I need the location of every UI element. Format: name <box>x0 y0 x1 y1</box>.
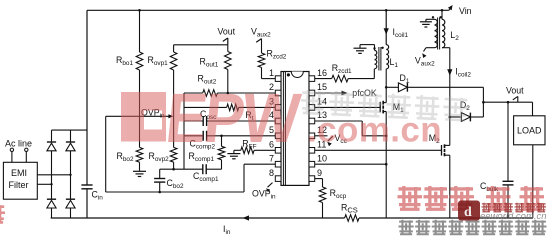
svg-text:LOAD: LOAD <box>517 126 542 136</box>
svg-text:10: 10 <box>317 153 327 163</box>
pin 12 square <box>309 133 315 139</box>
pin 1 square <box>275 76 281 82</box>
wire M2 source to rail <box>449 155 451 218</box>
node Vout flag <box>223 38 228 41</box>
capacitor Ccomp1 <box>202 164 204 174</box>
svg-text:eeworld.com.cn: eeworld.com.cn <box>480 211 547 222</box>
svg-text:Filter: Filter <box>9 180 29 190</box>
pin 3 square <box>275 105 281 111</box>
inductor L1 feed wire with Icoil1 arrow <box>385 10 387 44</box>
watermark eeworld small text <box>482 203 547 212</box>
svg-text:1: 1 <box>269 68 274 78</box>
wire pin 10 to source column <box>315 163 387 165</box>
pin 16 square <box>309 76 315 82</box>
capacitor Cin <box>81 184 92 186</box>
diode bridge lower-right <box>66 200 75 208</box>
svg-text:EPW: EPW <box>162 78 303 157</box>
resistor Rocp from pin 9 <box>315 178 323 180</box>
pin 4 square <box>275 118 281 124</box>
node OVPin flag at pin 8 <box>268 183 273 188</box>
svg-text:8: 8 <box>269 168 274 178</box>
EMI Filter box <box>3 162 37 199</box>
wire LOAD to rail <box>532 145 534 218</box>
svg-text:9: 9 <box>317 168 322 178</box>
resistor Rovp2 <box>173 70 175 147</box>
diode D2 <box>450 116 462 118</box>
pin 11 square <box>309 148 315 154</box>
watermark eeworld logo <box>458 201 480 221</box>
svg-text:16: 16 <box>317 68 327 78</box>
diode bridge upper-left <box>47 143 56 151</box>
ground left of Rff <box>233 150 235 153</box>
wire pin 14 to M1 gate <box>315 106 381 108</box>
pin 13 square <box>309 118 315 124</box>
resistor Rcomp1 <box>221 136 223 147</box>
wire L2 main top to rail <box>441 10 443 19</box>
pin 2 square <box>275 90 281 96</box>
bottom rail wire with Iin arrow <box>51 217 345 219</box>
wire L1 to M1 drain <box>385 69 387 103</box>
bridge left column wire <box>51 130 53 141</box>
svg-text:Vout: Vout <box>218 27 236 37</box>
op-amp U1 IC body 16-pin <box>281 72 309 186</box>
node Vin arrow <box>449 7 452 11</box>
watermark EEPW letters <box>121 78 442 157</box>
pin 9 square <box>309 176 315 182</box>
pin 10 square <box>309 161 315 167</box>
bridge rectifier top wire <box>52 129 88 131</box>
pin 8 square <box>275 176 281 182</box>
diode bridge upper-right <box>66 143 75 151</box>
wire to pin 1 <box>262 78 276 80</box>
wire L2 to M2 drain with Icoil2 arrow <box>442 47 450 49</box>
svg-text:15: 15 <box>317 82 327 92</box>
ground at L1 aux <box>374 45 376 51</box>
resistor Rzcd1 on pin 16 wire <box>315 78 332 80</box>
node Vout flag right <box>513 96 518 99</box>
bridge right column wire <box>70 130 72 141</box>
top rail wire <box>87 9 449 11</box>
resistor Rovp1 <box>173 45 175 52</box>
capacitor Cbo2 <box>159 169 161 178</box>
resistor Rout2 <box>203 90 218 97</box>
wire pin4 row with capacitor Cosc <box>184 120 203 122</box>
svg-text:EMI: EMI <box>11 168 27 178</box>
pin 5 square <box>275 133 281 139</box>
wire pin 11 to M2 gate <box>315 149 442 151</box>
wire EMI to bridge upper <box>37 174 70 176</box>
node Vcc flag at pin 12 <box>315 135 328 137</box>
watermark gray RF expert text <box>399 220 547 234</box>
ground at L2 aux <box>426 18 435 20</box>
resistor Rbo2 <box>139 70 141 147</box>
resistor Rzcd2 <box>261 39 263 53</box>
node Vaux2 flag at L2 aux <box>426 47 435 49</box>
wire M1 source column down to rail <box>385 112 387 219</box>
pin 15 square <box>309 90 315 96</box>
svg-text:Vin: Vin <box>459 6 472 16</box>
resistor RCS <box>345 215 359 222</box>
wire pin 15 pfcOK <box>315 92 342 94</box>
diode D1 <box>386 86 398 88</box>
inductor L1 <box>386 45 388 69</box>
svg-text:Vout: Vout <box>506 86 524 96</box>
resistor Rff with wire to pin 6 <box>234 149 241 151</box>
svg-text:d: d <box>464 205 472 220</box>
wire Vout node top <box>174 44 228 46</box>
LOAD box <box>532 102 534 116</box>
transistor M2 <box>441 145 443 156</box>
wire EMI to bridge lower <box>37 183 51 185</box>
wire pin5 row with capacitor Ccomp2 <box>184 135 203 137</box>
diode bridge lower-left <box>47 200 56 208</box>
svg-text:Ac line: Ac line <box>5 139 32 149</box>
resistor Rbo1 <box>139 10 141 52</box>
wire left bus <box>183 93 185 169</box>
watermark left edge fragment <box>0 204 5 222</box>
wire pin 13 to source column <box>315 120 363 122</box>
ground below Rbo2 <box>133 170 146 172</box>
pin 6 square <box>275 148 281 154</box>
pin 14 square <box>309 105 315 111</box>
inductor L2 <box>442 19 445 47</box>
transistor M1 <box>379 102 381 113</box>
capacitor Cbulk <box>507 102 509 181</box>
pin 7 square <box>275 161 281 167</box>
wire pin2 row <box>184 92 203 94</box>
wire D1 cathode down leg <box>482 87 484 117</box>
wire pin3 row with resistor Rt <box>184 106 227 108</box>
wire Ccomp1 row <box>160 168 203 170</box>
node OVPin wire loop from pin 7 <box>244 163 275 165</box>
left rail wire <box>86 10 88 185</box>
watermark gray chinese eepw <box>300 90 468 121</box>
resistor Rout1 <box>227 45 229 52</box>
wire output bus <box>483 101 532 103</box>
watermark red training text <box>398 186 423 209</box>
wire L1 aux to Rzcd1 <box>373 69 375 79</box>
